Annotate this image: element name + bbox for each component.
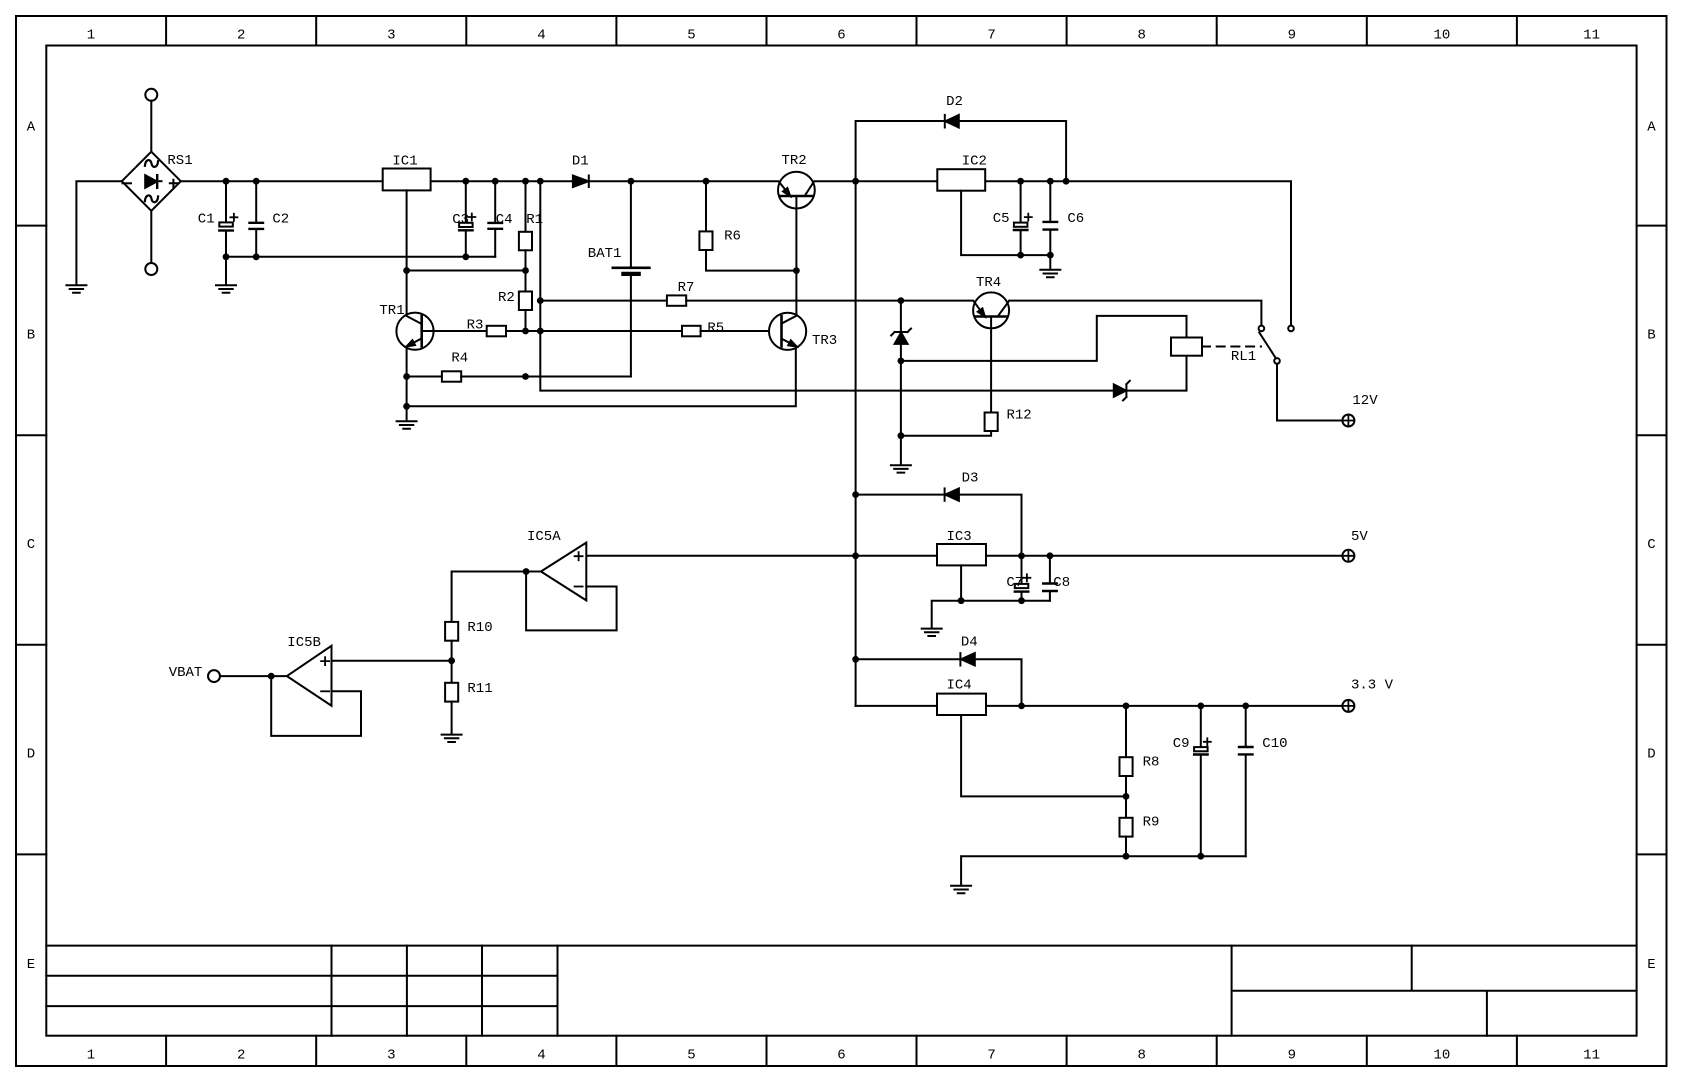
svg-text:E: E [27, 957, 35, 973]
capacitor C2 [250, 181, 290, 257]
svg-text:R11: R11 [467, 681, 492, 697]
svg-text:8: 8 [1137, 1047, 1145, 1063]
resistor R10 [445, 620, 493, 661]
svg-text:4: 4 [537, 27, 545, 43]
free-wheel zener diode [1114, 381, 1130, 401]
wire unregulated bus [855, 181, 857, 706]
svg-text:B: B [1647, 327, 1655, 343]
svg-text:TR3: TR3 [812, 333, 837, 349]
svg-text:D: D [1647, 747, 1655, 763]
svg-text:B: B [27, 327, 35, 343]
resistor R6 [699, 181, 796, 270]
wire IC5B output to VBAT [220, 675, 287, 677]
diode D1 [572, 153, 589, 187]
wire TR4 collector to relay switch common [1009, 301, 1261, 326]
svg-text:2: 2 [237, 27, 245, 43]
wire IC4 output to 3.3V terminal [986, 705, 1342, 707]
svg-text:3.3 V: 3.3 V [1351, 678, 1394, 694]
transistor TR4 [973, 275, 1009, 412]
svg-text:R2: R2 [498, 290, 515, 306]
capacitor C6 [1044, 181, 1085, 255]
capacitor C4 [489, 181, 513, 257]
wire main rail TR2 to IC2 [815, 180, 938, 182]
wire main rail RS1 to IC1 [181, 180, 383, 182]
capacitor C1 [198, 181, 238, 285]
svg-text:R8: R8 [1143, 754, 1160, 770]
resistor R5 [682, 320, 782, 336]
resistor R3 [467, 317, 682, 336]
ground (bridge input) [66, 285, 86, 292]
svg-text:1: 1 [87, 1047, 95, 1063]
wire TR1 emitter down [406, 346, 408, 406]
svg-text:D2: D2 [946, 94, 963, 110]
capacitor C9 [1173, 706, 1211, 856]
relay coil RL1 [1171, 338, 1261, 365]
resistor R12 [901, 408, 1032, 436]
terminal 5V [1342, 529, 1368, 562]
svg-text:IC1: IC1 [392, 153, 417, 169]
svg-text:IC5B: IC5B [287, 635, 321, 651]
capacitor C5 [993, 181, 1032, 255]
wire IC5A output [452, 572, 541, 622]
zener diode (TR4 base) [891, 301, 911, 465]
resistor R1 [519, 181, 543, 270]
regulator IC4 [937, 678, 986, 716]
svg-text:D3: D3 [962, 470, 979, 486]
resistor R4 [407, 351, 631, 382]
svg-text:3: 3 [387, 27, 395, 43]
bridge rectifier RS1 [122, 89, 193, 275]
relay switch [1259, 326, 1280, 364]
svg-text:11: 11 [1583, 1047, 1600, 1063]
battery BAT1 [588, 181, 650, 376]
resistor R11 [445, 661, 493, 735]
capacitor C10 [1239, 706, 1288, 856]
svg-text:BAT1: BAT1 [588, 246, 622, 262]
svg-text:4: 4 [537, 1047, 545, 1063]
wire main rail IC2 to NO contact [985, 181, 1291, 325]
ground (IC3) [922, 629, 942, 636]
svg-text:E: E [1647, 957, 1655, 973]
ground (IC4) [951, 886, 971, 893]
diode D3 wire [856, 495, 1022, 556]
wire IC5B + input [332, 660, 452, 662]
regulator IC1 [383, 153, 431, 190]
svg-text:10: 10 [1433, 1047, 1450, 1063]
svg-text:C1: C1 [198, 211, 215, 227]
wire bottom rail C1-C4 [226, 256, 495, 258]
svg-text:8: 8 [1137, 27, 1145, 43]
svg-text:R6: R6 [724, 229, 741, 245]
svg-text:5: 5 [687, 27, 695, 43]
diode D2 [945, 94, 963, 128]
svg-text:6: 6 [837, 27, 845, 43]
wire switch to 12V terminal [1277, 364, 1342, 421]
svg-text:7: 7 [987, 27, 995, 43]
svg-text:RS1: RS1 [167, 153, 192, 169]
ground (TR1) [406, 406, 408, 421]
svg-text:VBAT: VBAT [169, 665, 203, 681]
wire IC4 adj pin [961, 715, 1126, 796]
wire TR1 ground rail [407, 347, 796, 407]
svg-text:IC4: IC4 [947, 678, 972, 694]
capacitor C7 [1006, 556, 1030, 601]
svg-text:C9: C9 [1173, 736, 1190, 752]
svg-text:10: 10 [1433, 27, 1450, 43]
svg-text:R3: R3 [467, 317, 484, 333]
resistor R2 [498, 271, 532, 332]
terminal VBAT [169, 665, 220, 682]
svg-text:C6: C6 [1067, 211, 1084, 227]
wire IC1 output to R1/R2 junction [407, 270, 526, 272]
wire IC2 ground pin [961, 191, 1050, 270]
svg-text:9: 9 [1288, 27, 1296, 43]
svg-text:C10: C10 [1262, 736, 1287, 752]
wire IC5A input / IC3 input [586, 555, 937, 557]
diode D4 wire [856, 659, 1022, 706]
svg-text:R7: R7 [678, 280, 695, 296]
svg-text:C: C [27, 537, 35, 553]
svg-text:5: 5 [687, 1047, 695, 1063]
wire bus to IC4 [856, 705, 937, 707]
regulator IC2 [937, 154, 987, 191]
svg-text:C7: C7 [1006, 575, 1023, 591]
diode D3 [945, 470, 979, 500]
svg-text:A: A [27, 120, 36, 136]
transistor TR1 [379, 303, 486, 350]
terminal 12V [1342, 393, 1378, 427]
ground (IC2/C5/C6) [1040, 270, 1060, 277]
wire IC3 ground pin [932, 565, 1050, 628]
wire IC5A feedback [526, 572, 617, 631]
wire IC1 output down to TR1 [406, 190, 408, 316]
svg-text:3: 3 [387, 1047, 395, 1063]
ground (zener) [891, 465, 911, 472]
diode D2 branch wire [856, 121, 1067, 181]
svg-text:1: 1 [87, 27, 95, 43]
capacitor C8 [1043, 556, 1070, 601]
svg-text:2: 2 [237, 1047, 245, 1063]
wire AC input left to ground [76, 181, 121, 285]
ground (R11) [442, 735, 462, 742]
svg-text:R10: R10 [467, 620, 492, 636]
svg-text:TR4: TR4 [976, 275, 1001, 291]
diode D4 [960, 634, 977, 665]
svg-text:C8: C8 [1053, 575, 1070, 591]
wire IC5B feedback [271, 676, 361, 736]
NO contact circle [1288, 326, 1294, 332]
resistor R7 [540, 280, 972, 306]
svg-text:C5: C5 [993, 211, 1010, 227]
svg-text:RL1: RL1 [1231, 349, 1256, 365]
ground (C1) [216, 285, 236, 292]
regulator IC3 [937, 529, 986, 566]
transistor TR2 [778, 153, 815, 316]
svg-text:9: 9 [1288, 1047, 1296, 1063]
svg-text:11: 11 [1583, 27, 1600, 43]
svg-text:TR2: TR2 [782, 153, 807, 169]
resistor R8 [1120, 706, 1160, 797]
wire x540 feeder rail to relay free-wheel line [540, 181, 1186, 390]
svg-text:R4: R4 [451, 351, 468, 367]
wire zener node to relay coil [901, 316, 1187, 361]
svg-text:A: A [1647, 120, 1656, 136]
svg-text:TR1: TR1 [379, 303, 404, 319]
svg-text:D: D [27, 747, 35, 763]
resistor R9 [1120, 796, 1160, 856]
svg-text:C2: C2 [272, 211, 289, 227]
transistor TR3 [769, 313, 837, 350]
TITLE BLOCK [46, 945, 1636, 947]
svg-text:D4: D4 [961, 634, 978, 650]
svg-text:C: C [1647, 537, 1655, 553]
svg-text:R5: R5 [707, 320, 724, 336]
svg-text:IC3: IC3 [947, 529, 972, 545]
svg-text:R12: R12 [1007, 408, 1032, 424]
capacitor C3 [452, 181, 475, 257]
op-amp IC5A [527, 529, 586, 600]
svg-text:5V: 5V [1351, 529, 1368, 545]
svg-text:12V: 12V [1352, 393, 1378, 409]
svg-text:IC2: IC2 [962, 154, 987, 170]
svg-text:6: 6 [837, 1047, 845, 1063]
op-amp IC5B [287, 635, 332, 706]
svg-text:R9: R9 [1143, 814, 1160, 830]
svg-text:IC5A: IC5A [527, 529, 561, 545]
wire IC3 output to 5V terminal [986, 555, 1342, 557]
svg-text:D1: D1 [572, 153, 589, 169]
svg-text:7: 7 [987, 1047, 995, 1063]
svg-text:C3: C3 [452, 212, 469, 228]
svg-text:C4: C4 [496, 212, 513, 228]
wire 3.3V ground rail [961, 856, 1246, 885]
terminal 3.3V [1342, 678, 1393, 712]
wire main rail IC1 to TR2 [431, 180, 778, 182]
